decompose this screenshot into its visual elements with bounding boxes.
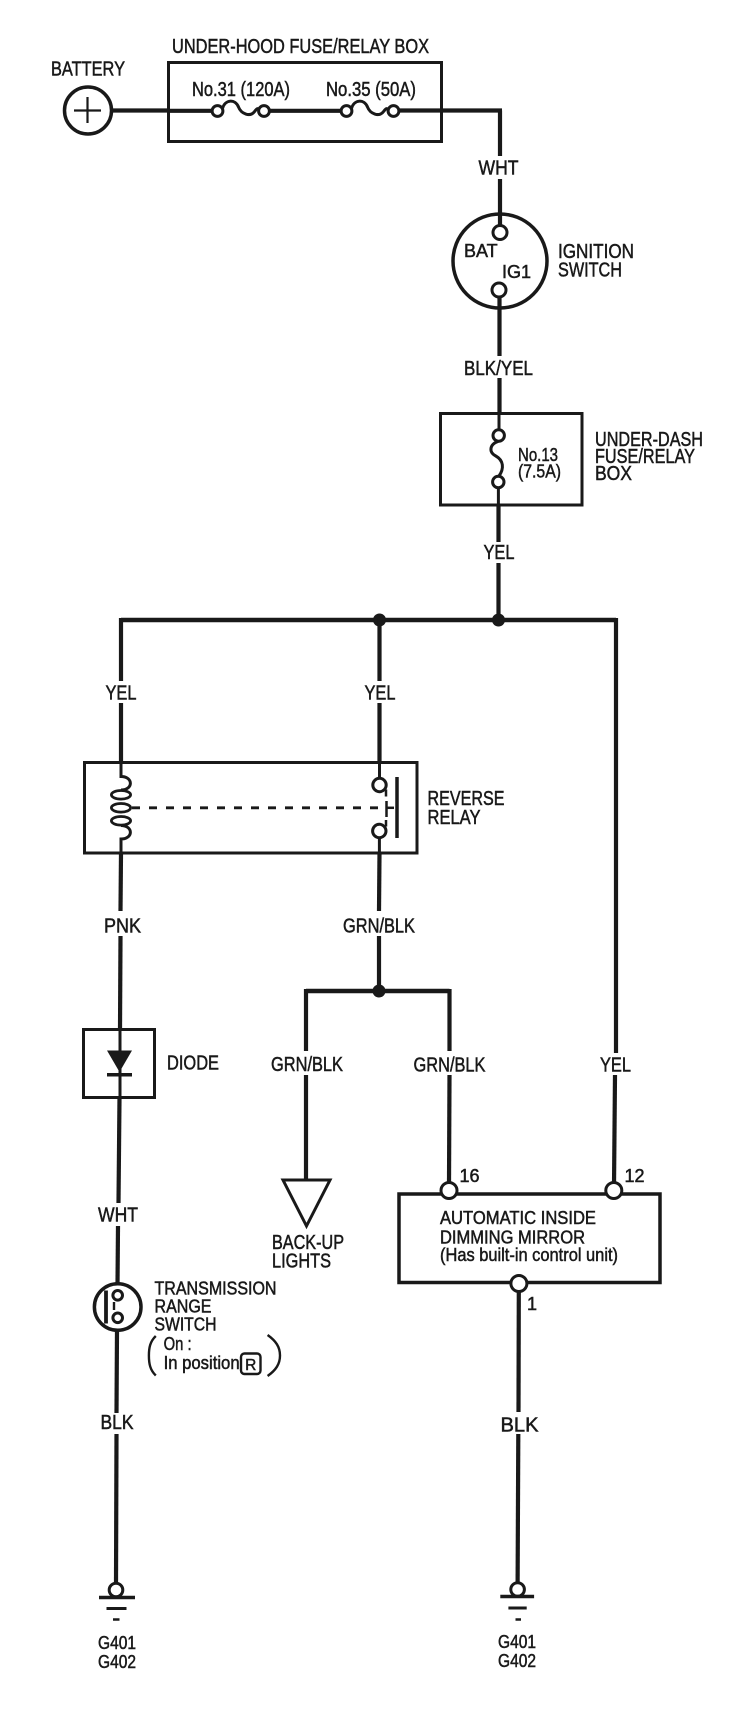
svg-text:BAT: BAT bbox=[464, 241, 498, 261]
svg-text:GRN/BLK: GRN/BLK bbox=[271, 1054, 344, 1076]
svg-text:BOX: BOX bbox=[595, 463, 632, 485]
svg-text:LIGHTS: LIGHTS bbox=[272, 1251, 331, 1273]
svg-text:YEL: YEL bbox=[365, 683, 396, 705]
svg-text:UNDER-HOOD FUSE/RELAY BOX: UNDER-HOOD FUSE/RELAY BOX bbox=[172, 36, 429, 58]
svg-text:YEL: YEL bbox=[484, 542, 515, 564]
svg-text:1: 1 bbox=[527, 1294, 537, 1314]
svg-text:In position: In position bbox=[164, 1353, 240, 1373]
svg-text:No.35 (50A): No.35 (50A) bbox=[326, 79, 416, 101]
svg-text:(7.5A): (7.5A) bbox=[518, 462, 561, 482]
svg-text:AUTOMATIC INSIDE: AUTOMATIC INSIDE bbox=[440, 1208, 596, 1228]
svg-text:(Has built-in control unit): (Has built-in control unit) bbox=[440, 1245, 618, 1265]
svg-text:G401: G401 bbox=[498, 1632, 536, 1652]
svg-text:BLK/YEL: BLK/YEL bbox=[464, 358, 533, 380]
svg-text:WHT: WHT bbox=[479, 158, 519, 180]
svg-text:No.31 (120A): No.31 (120A) bbox=[192, 79, 290, 101]
svg-text:On :: On : bbox=[164, 1334, 192, 1354]
svg-text:RELAY: RELAY bbox=[428, 807, 481, 829]
svg-text:WHT: WHT bbox=[98, 1205, 138, 1227]
svg-text:R: R bbox=[245, 1357, 256, 1374]
svg-text:TRANSMISSION: TRANSMISSION bbox=[155, 1279, 277, 1299]
svg-text:SWITCH: SWITCH bbox=[558, 260, 622, 282]
svg-text:PNK: PNK bbox=[104, 916, 142, 938]
svg-text:IG1: IG1 bbox=[502, 262, 531, 282]
svg-text:12: 12 bbox=[625, 1166, 645, 1186]
svg-text:G402: G402 bbox=[498, 1651, 536, 1671]
svg-text:RANGE: RANGE bbox=[155, 1297, 212, 1317]
svg-text:GRN/BLK: GRN/BLK bbox=[414, 1055, 487, 1077]
svg-text:BLK: BLK bbox=[101, 1412, 135, 1434]
svg-text:BLK: BLK bbox=[501, 1415, 540, 1437]
svg-text:YEL: YEL bbox=[106, 683, 137, 705]
svg-text:BATTERY: BATTERY bbox=[51, 59, 125, 81]
svg-text:16: 16 bbox=[460, 1166, 480, 1186]
svg-text:DIODE: DIODE bbox=[167, 1053, 219, 1075]
svg-text:SWITCH: SWITCH bbox=[155, 1315, 217, 1335]
svg-text:YEL: YEL bbox=[600, 1055, 631, 1077]
svg-text:GRN/BLK: GRN/BLK bbox=[343, 916, 416, 938]
svg-text:G402: G402 bbox=[98, 1652, 136, 1672]
svg-text:G401: G401 bbox=[98, 1633, 136, 1653]
